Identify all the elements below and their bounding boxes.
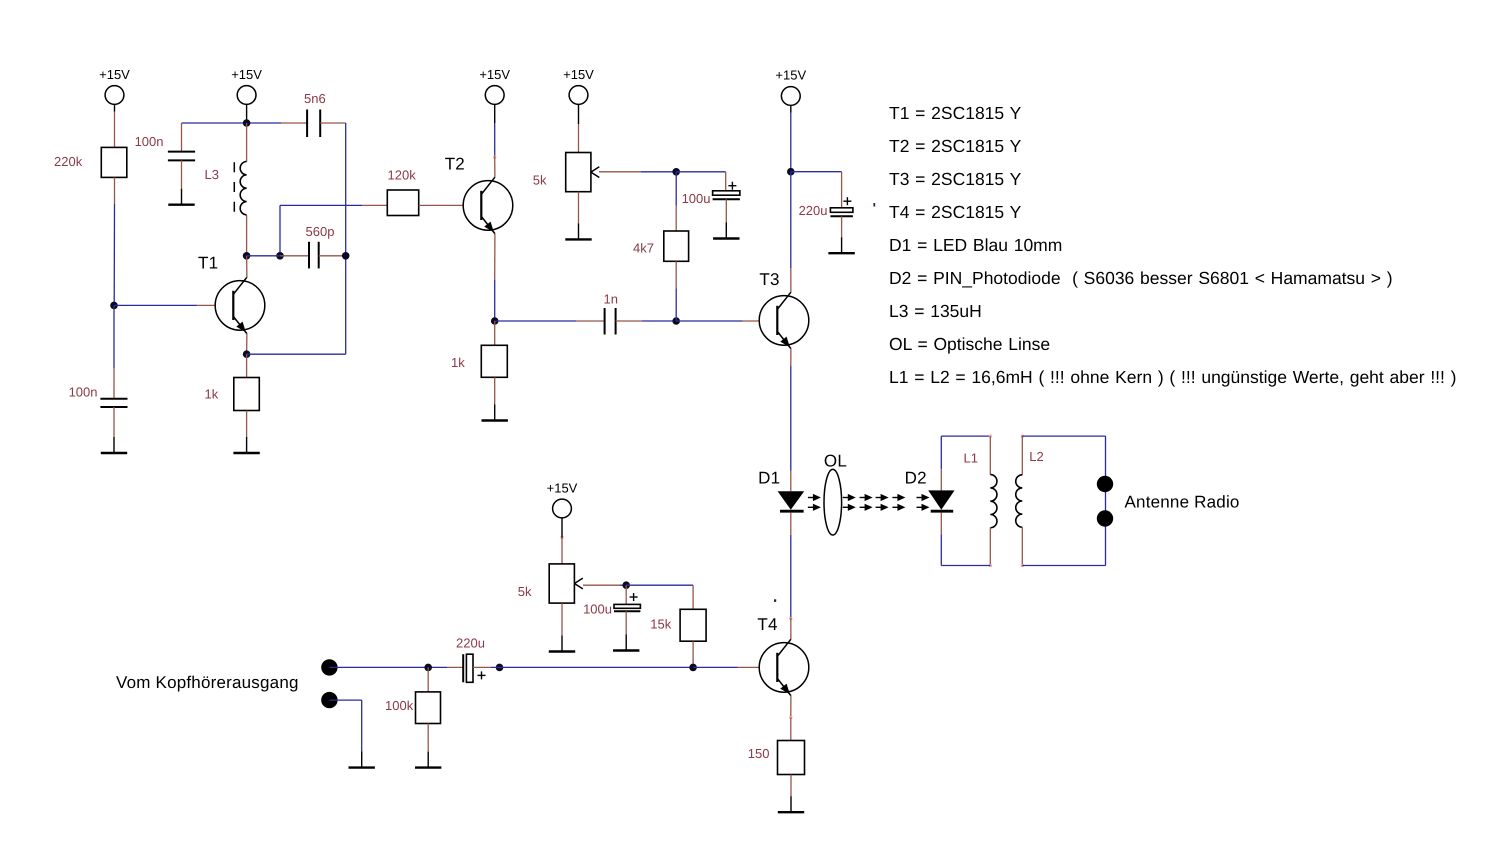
svg-text:L1 = L2 = 16,6mH ( !!! ohne Ke: L1 = L2 = 16,6mH ( !!! ohne Kern ) ( !!!…: [889, 367, 1457, 387]
light arrow c2 lower: [860, 504, 873, 511]
pin mark L2 top: [1021, 435, 1024, 438]
wire T1 base pin lead (red): [197, 304, 233, 306]
svg-text:+15V: +15V: [479, 67, 510, 82]
capacitor 100n lower plates: [100, 398, 127, 400]
svg-text:150: 150: [748, 746, 770, 761]
ground below 5k upper: [565, 223, 591, 239]
svg-text:4k7: 4k7: [633, 241, 654, 256]
svg-text:OL = Optische Linse: OL = Optische Linse: [889, 334, 1050, 354]
node H junction: [672, 317, 680, 325]
svg-text:L1: L1: [964, 451, 978, 466]
wire 1n to node H (blue): [642, 320, 677, 322]
wire node B horizontal (blue): [182, 122, 282, 124]
svg-text:220k: 220k: [54, 154, 83, 169]
capacitor 1n plates: [604, 308, 606, 335]
light arrow c2 upper: [860, 494, 873, 501]
svg-text:220u: 220u: [799, 203, 828, 218]
wire 560p right pin lead (red): [319, 255, 346, 257]
light arrow c1 lower: [843, 504, 856, 511]
wire T3 emitter pin (red): [790, 349, 792, 366]
plus sign 100u upper: [728, 182, 736, 190]
wire supply2 to node B (black): [246, 112, 248, 124]
wire 1k to ground (red): [246, 411, 248, 438]
wire 100k to ground (red): [427, 724, 429, 752]
ground below 100u upper: [713, 223, 739, 239]
wire supply3 stub (black): [494, 112, 496, 124]
ground below 150: [778, 796, 804, 812]
wire 4k7 top pin lead (red): [675, 206, 677, 232]
wire to 120k (blue): [346, 204, 363, 206]
wire 120k left pin lead (red): [362, 204, 387, 206]
ground below 220u: [828, 237, 854, 253]
node M junction (15k bottom): [689, 664, 697, 672]
svg-text:T4 = 2SC1815 Y: T4 = 2SC1815 Y: [889, 202, 1022, 222]
svg-text:D1 = LED Blau 10mm: D1 = LED Blau 10mm: [889, 235, 1062, 255]
wire 5k lower to ground (red): [561, 603, 563, 635]
light arrow D1 upper: [808, 494, 821, 501]
wire node K to 15k corner (blue): [626, 584, 693, 586]
svg-text:D1: D1: [758, 469, 780, 488]
wire 220k to node A: [113, 204, 115, 305]
antenna terminal upper: [1097, 476, 1113, 492]
power +15V supply 3 (T2): [485, 86, 504, 112]
wire 15k bottom pin lead (red): [692, 641, 694, 667]
svg-text:15k: 15k: [650, 617, 671, 632]
svg-text:120k: 120k: [388, 168, 417, 183]
capacitor 100u upper lower plate: [713, 198, 740, 200]
photodiode D2 triangle: [928, 490, 954, 509]
wire T4 base pin lead (red): [738, 666, 778, 668]
svg-text:L3 = 135uH: L3 = 135uH: [889, 301, 982, 321]
wire 15k top pin lead (red): [692, 585, 694, 609]
ground below input lower: [349, 752, 375, 768]
svg-text:+15V: +15V: [775, 68, 806, 83]
wire L2 top pin lead (red): [1021, 436, 1023, 475]
svg-text:T1 = 2SC1815 Y: T1 = 2SC1815 Y: [889, 103, 1022, 123]
wire D1 cathode pin (red): [790, 512, 792, 535]
plus sign 100u lower: [630, 593, 638, 601]
wire antenna vertical (blue): [1105, 436, 1107, 565]
node K junction: [622, 581, 630, 589]
power +15V supply 2: [237, 86, 256, 112]
wire capacitor 100n upper stem (red): [181, 123, 183, 152]
wire L2 top link (blue): [1022, 435, 1105, 437]
wire 220u to ground (red): [841, 216, 843, 237]
wire node N to 100k (red): [427, 667, 429, 692]
pin mark T2 collector: [493, 156, 496, 159]
transistor T4: [759, 639, 809, 695]
wire node F to feedback vertical (blue): [247, 353, 346, 355]
plus sign 220u input: [478, 671, 486, 679]
wire T3 collector pin (red): [790, 268, 792, 292]
resistor 1k (T1 emitter): [234, 378, 259, 411]
resistor 220k: [101, 147, 127, 177]
transistor T2: [463, 177, 513, 233]
wire 100u lower to ground (red): [625, 611, 627, 634]
wire 560p top link vertical (blue): [279, 205, 281, 255]
capacitor 560p plates: [308, 242, 310, 269]
svg-text:5k: 5k: [518, 584, 532, 599]
wire 1n left pin lead (red): [576, 320, 604, 322]
wire D2 top pin (blue): [940, 436, 942, 469]
wire T2 emitter pin (red): [494, 234, 496, 280]
wire to capacitor 100n lower (red): [113, 368, 115, 399]
svg-text:OL: OL: [824, 452, 847, 471]
node L junction (after 220u): [496, 664, 504, 672]
wire node J to 220u corner (blue): [791, 171, 842, 173]
wire supply6 stub (black): [561, 525, 563, 538]
wire L2 bottom pin lead (red): [1021, 527, 1023, 565]
svg-text:T3: T3: [759, 270, 779, 289]
svg-text:5n6: 5n6: [304, 91, 326, 106]
wire to node I (blue): [641, 171, 677, 173]
wire node H to T3 base (blue): [676, 320, 742, 322]
potentiometer 5k lower: [549, 564, 583, 603]
wire 220u left pin lead (red): [447, 666, 463, 668]
capacitor 100n upper plates: [168, 151, 195, 153]
wire 1k T2 to ground (red): [494, 377, 496, 404]
wire L2 bottom link (blue): [1022, 565, 1105, 567]
svg-text:+15V: +15V: [563, 67, 594, 82]
wire node G to 1n (blue): [495, 320, 577, 322]
pin mark 5k lower top: [561, 536, 564, 539]
wire T4 collector pin (red): [790, 618, 792, 639]
light arrow D1 lower: [808, 504, 821, 511]
wire 5k upper to ground (red): [578, 192, 580, 224]
svg-text:5k: 5k: [533, 172, 547, 187]
pin mark L1 bottom: [989, 564, 992, 567]
antenna terminal lower: [1097, 510, 1113, 526]
ground below 100n lower: [101, 437, 127, 453]
wire 100u upper to ground (red): [725, 199, 727, 222]
light arrow c4 lower: [892, 504, 905, 511]
wire supply1 to R 220k: [114, 112, 116, 148]
wire input lower horizontal (blue): [329, 699, 361, 701]
plus sign 220u: [843, 197, 851, 205]
wire to node K (blue): [620, 584, 626, 586]
svg-text:1k: 1k: [451, 355, 465, 370]
svg-text:560p: 560p: [306, 224, 335, 239]
capacitor 100u lower polarized plate: [614, 604, 640, 608]
wire 5n6 feedback vertical (blue): [345, 123, 347, 354]
svg-text:T1: T1: [198, 254, 218, 273]
svg-text:L2: L2: [1029, 449, 1043, 464]
light arrow c5 upper: [917, 494, 930, 501]
wire 5k lower wiper tail (red): [583, 584, 620, 586]
power +15V supply 1: [105, 86, 124, 112]
power +15V supply 5 (T3): [781, 87, 800, 113]
svg-text:L3: L3: [205, 167, 219, 182]
wire node K to 100u stem (red): [625, 585, 627, 604]
svg-text:220u: 220u: [456, 636, 485, 651]
wire node A to T1 base (blue): [114, 304, 197, 306]
wire 120k to T2 base (red): [419, 204, 482, 206]
pin mark L1 top: [989, 435, 992, 438]
svg-text:+15V: +15V: [99, 67, 130, 82]
inductor L2 coil: [1016, 475, 1023, 527]
wire 4k7 bottom pin lead (red): [675, 261, 677, 288]
light arrow c3 lower: [876, 504, 889, 511]
light arrow c4 upper: [892, 494, 905, 501]
wire supply3 down (blue): [494, 123, 496, 156]
node N junction (100k top): [424, 664, 432, 672]
wire 100n upper to ground: [181, 160, 183, 188]
svg-text:T2 = 2SC1815 Y: T2 = 2SC1815 Y: [889, 136, 1022, 156]
svg-text:+15V: +15V: [231, 67, 262, 82]
potentiometer 5k upper: [566, 153, 600, 192]
wire input to 220u (blue): [329, 666, 447, 668]
wire node I to 100u corner (blue): [676, 171, 726, 173]
wire 220u right pin lead (red): [473, 666, 491, 668]
wire T4 emitter to 150 (red): [790, 718, 792, 741]
resistor 1k (T2 emitter): [481, 345, 507, 377]
wire node M to T4 base (blue): [693, 666, 737, 668]
wire D2 bottom (blue): [940, 534, 942, 565]
inductor L3 coil: [240, 162, 246, 215]
svg-text:1k: 1k: [205, 387, 219, 402]
ground below 1k (T1): [233, 437, 259, 453]
LED D1 cathode bar: [780, 510, 804, 513]
pin mark T4 collector: [789, 617, 792, 620]
svg-text:T2: T2: [445, 155, 465, 174]
wire T1 collector pin (red): [246, 256, 248, 277]
light arrow c1 upper: [843, 494, 856, 501]
wire supply6 to 5k pot (red): [561, 538, 563, 564]
terminal input upper: [321, 659, 337, 675]
photodiode D2 cathode bar: [931, 510, 954, 513]
wire L1 top pin lead (red): [989, 436, 991, 475]
svg-text:100n: 100n: [69, 385, 98, 400]
node F junction (T1 emitter): [243, 350, 251, 358]
LED D1 triangle: [778, 491, 805, 510]
transistor T1: [215, 277, 265, 333]
stray tick mark right of 220u: [873, 203, 875, 207]
svg-text:D2: D2: [905, 469, 927, 488]
wire L1 top link (blue): [941, 435, 990, 437]
svg-text:100u: 100u: [682, 191, 711, 206]
resistor 150: [778, 741, 805, 775]
wire node B to L3 top (red): [246, 123, 248, 162]
node C junction: [243, 252, 251, 260]
node E junction (560p right): [342, 252, 350, 260]
wire 100u upper stem (red): [725, 172, 727, 191]
wire D2 cathode pin (red): [940, 512, 942, 534]
capacitor 100u lower bottom plate: [614, 610, 640, 612]
wire L3 bottom to node C (red): [246, 215, 248, 256]
light arrow c5 lower: [917, 504, 930, 511]
svg-text:Antenne Radio: Antenne Radio: [1125, 493, 1240, 512]
wire 220u stem (red): [841, 172, 843, 208]
capacitor 220u lower plate: [830, 215, 853, 217]
svg-text:1n: 1n: [604, 291, 618, 306]
node D junction (560p left): [276, 252, 284, 260]
resistor 120k: [387, 190, 418, 216]
svg-text:Vom Kopfhörerausgang: Vom Kopfhörerausgang: [116, 673, 299, 692]
node I junction: [672, 168, 680, 176]
inductor L1 coil: [990, 475, 997, 528]
terminal input lower: [321, 692, 337, 708]
wire node A down (blue): [113, 305, 115, 368]
wire node L to node M (blue): [491, 666, 693, 668]
wire supply4 to 5k pot (red): [578, 124, 580, 153]
capacitor 220u input left plate: [462, 654, 464, 682]
wire 560p top link horizontal (blue): [280, 204, 346, 206]
wire D1 anode pin (red): [790, 471, 792, 492]
power +15V supply 4 (5k pot upper): [569, 86, 588, 112]
ground below 100n upper: [168, 189, 194, 205]
wire T3 emitter to D1 (blue): [790, 366, 792, 471]
wire 5n6 right plate to corner (red): [320, 122, 346, 124]
svg-text:+15V: +15V: [547, 481, 578, 496]
wire node C to node D (blue): [247, 255, 280, 257]
wire input lower vertical (blue): [361, 700, 363, 753]
wire 560p left pin lead (red): [280, 255, 309, 257]
node G junction (T2 emitter): [491, 317, 499, 325]
lens OL ellipse: [824, 469, 842, 535]
wire L1 bottom pin lead (red): [989, 528, 991, 566]
svg-text:T3 = 2SC1815 Y: T3 = 2SC1815 Y: [889, 169, 1022, 189]
inductor L3 core dashed line: [233, 162, 235, 212]
wire T1 emitter pin (red): [246, 334, 248, 355]
pin mark T4 emitter: [789, 716, 792, 719]
wire 5k wiper tail (red): [599, 171, 641, 173]
svg-text:100k: 100k: [385, 698, 414, 713]
wire L1 bottom link (blue): [941, 565, 990, 567]
wire T2 emitter down (blue): [494, 280, 496, 321]
wire D1 to T4 collector (blue): [790, 535, 792, 618]
node A junction: [110, 302, 118, 310]
node J junction: [787, 168, 795, 176]
capacitor 5n6 plates: [306, 110, 308, 138]
stray tick mark above T4: [774, 599, 776, 602]
svg-text:D2 = PIN_Photodiode ( S6036 b: D2 = PIN_Photodiode ( S6036 besser S6801…: [889, 268, 1393, 288]
wire supply5 to node J (blue): [790, 113, 792, 172]
wire 4k7 to node H (blue): [675, 289, 677, 322]
wire D2 anode pin (red): [940, 469, 942, 490]
wire 150 to ground (red): [790, 775, 792, 797]
ground below 5k lower: [549, 636, 575, 652]
wire T4 emitter pin (red): [790, 696, 792, 718]
svg-text:T4: T4: [757, 615, 777, 634]
capacitor 220u input polarized plate: [466, 654, 473, 682]
light arrow c3 upper: [876, 494, 889, 501]
resistor 4k7: [664, 231, 689, 261]
wire supply4 stub (black): [578, 112, 580, 125]
wire node F to 1k (red): [246, 354, 248, 377]
power +15V supply 6 (5k pot lower): [553, 499, 572, 525]
ground below 100k: [415, 752, 441, 768]
svg-text:100n: 100n: [135, 134, 164, 149]
svg-text:100u: 100u: [583, 602, 612, 617]
wire T2 collector pin (red): [494, 156, 496, 177]
wire node B to 5n6 left plate (red): [281, 122, 307, 124]
capacitor 220u polarized plate: [830, 208, 853, 213]
wire T3 base pin lead (red): [743, 320, 778, 322]
resistor 15k: [680, 609, 706, 641]
wire 100n lower to ground: [113, 407, 115, 437]
wire 1n right pin lead (red): [616, 320, 642, 322]
resistor 100k: [416, 692, 441, 724]
ground below 100u lower: [613, 635, 639, 651]
node B junction: [243, 119, 251, 127]
ground below 1k (T2): [482, 405, 508, 421]
wire node G to 1k T2 (red): [494, 321, 496, 345]
wire node J down to T3 (blue): [790, 172, 792, 268]
wire 220k bottom red stub: [114, 177, 116, 204]
wire node I down (blue): [675, 172, 677, 206]
capacitor 100u upper polarized plate: [713, 191, 740, 195]
pin mark L2 bottom: [1021, 564, 1024, 567]
transistor T3: [759, 292, 809, 348]
